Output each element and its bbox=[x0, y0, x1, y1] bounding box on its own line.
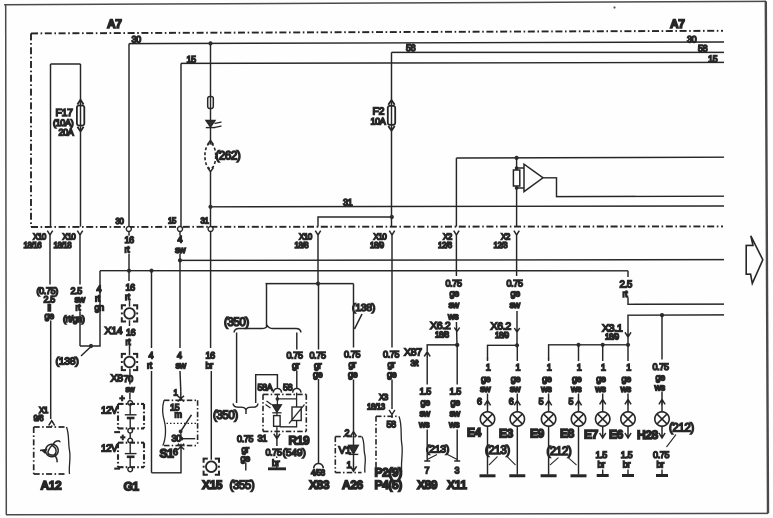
svg-text:18/13: 18/13 bbox=[367, 403, 385, 412]
pin arrow 1 of A26 bbox=[350, 462, 356, 471]
battery G1 lower cell box bbox=[118, 443, 144, 468]
wire bus2 bbox=[100, 270, 628, 272]
pin chevron X10 18/16 bbox=[47, 231, 52, 235]
svg-text:ge: ge bbox=[542, 374, 552, 384]
node S1 terminal 30 bbox=[180, 437, 184, 441]
svg-text:1: 1 bbox=[601, 363, 606, 373]
svg-text:4: 4 bbox=[149, 350, 154, 360]
pin arrow 2 of A26 bbox=[350, 432, 356, 438]
svg-text:ge: ge bbox=[387, 370, 397, 380]
wire brace left branch down bbox=[236, 333, 238, 404]
A26 wavy right edge bbox=[362, 437, 365, 473]
svg-text:gn: gn bbox=[95, 302, 105, 312]
pin terminal 15 circle on A7 border bbox=[178, 227, 183, 232]
wire bus 31 inside A7 bbox=[211, 205, 725, 208]
LED diode symbol bbox=[206, 121, 222, 128]
lamp E6 bbox=[621, 412, 635, 426]
svg-text:0.75: 0.75 bbox=[344, 349, 360, 359]
svg-text:1: 1 bbox=[347, 460, 352, 470]
svg-text:1: 1 bbox=[486, 363, 491, 373]
svg-text:ge: ge bbox=[450, 289, 460, 299]
svg-text:br: br bbox=[657, 460, 665, 470]
wire bus 30 inside A7 bbox=[129, 42, 724, 44]
svg-text:br: br bbox=[623, 460, 631, 470]
pin chevron X6.2 18/9 bbox=[514, 328, 519, 332]
pin arrow E6 below bbox=[625, 426, 631, 438]
svg-text:X87: X87 bbox=[404, 347, 422, 359]
svg-text:1: 1 bbox=[626, 363, 631, 373]
svg-text:0.75: 0.75 bbox=[266, 447, 282, 457]
svg-text:58A: 58A bbox=[258, 382, 273, 392]
svg-text:rt: rt bbox=[147, 361, 153, 371]
pin arrow E6 bbox=[625, 399, 631, 405]
wire lamp E7 column bbox=[602, 345, 604, 412]
connector X870 symbol bbox=[121, 354, 138, 370]
svg-text:+: + bbox=[120, 394, 125, 404]
resistor at amplifier input bbox=[513, 170, 519, 186]
fuse F2 bbox=[388, 100, 395, 131]
svg-text:(213): (213) bbox=[426, 444, 449, 456]
node busA at E3 bbox=[515, 343, 519, 347]
svg-text:G1: G1 bbox=[124, 480, 140, 494]
svg-text:E6: E6 bbox=[609, 428, 624, 442]
svg-text:ge: ge bbox=[421, 397, 431, 407]
svg-text:9/6: 9/6 bbox=[34, 414, 44, 423]
node junction F2 wire / X10 18-8 link bbox=[390, 215, 394, 219]
pin chevron X10 18/8 bbox=[315, 231, 320, 235]
svg-text:sw: sw bbox=[480, 384, 491, 394]
svg-text:rt: rt bbox=[76, 302, 82, 312]
device A12 box bbox=[34, 427, 66, 474]
svg-text:E7: E7 bbox=[584, 428, 599, 442]
wire lamp H28 column bbox=[661, 315, 663, 412]
svg-text:6: 6 bbox=[509, 397, 514, 407]
wire E4 to ground bbox=[487, 426, 489, 474]
wire amplifier input line bbox=[456, 156, 724, 159]
wire X6.2 down to X11 bbox=[456, 345, 458, 461]
svg-text:R19: R19 bbox=[289, 434, 311, 448]
wire bus2 corner 2.5 rt exit bbox=[628, 271, 724, 305]
S1 internal lead to 30 bbox=[181, 431, 196, 438]
wire X87 down to X89 bbox=[426, 356, 428, 461]
battery G1 upper cell plates bbox=[125, 404, 137, 428]
svg-text:1: 1 bbox=[547, 363, 552, 373]
wire X2 12/6 vertical bbox=[455, 158, 457, 227]
pin terminal 30 circle on A7 border bbox=[126, 227, 131, 232]
wire lamp E4 column bbox=[487, 358, 489, 413]
wire lamp feed line from right bbox=[628, 315, 724, 329]
svg-text:0.75: 0.75 bbox=[237, 434, 253, 444]
svg-text:1: 1 bbox=[577, 363, 582, 373]
wire link to X87 bbox=[427, 345, 457, 351]
svg-text:ge: ge bbox=[596, 374, 606, 384]
svg-text:1: 1 bbox=[174, 389, 178, 398]
fuse F17 circuit loop bbox=[50, 64, 52, 227]
wire 4rt bottom jog to S1 terminal 30 bbox=[152, 450, 182, 473]
svg-text:12/3: 12/3 bbox=[494, 241, 508, 250]
svg-text:16: 16 bbox=[126, 327, 136, 337]
svg-text:ws: ws bbox=[570, 384, 582, 394]
end tick X89 bbox=[424, 460, 430, 462]
pin chevron X2 12/3 bbox=[514, 231, 519, 235]
svg-text:4/58: 4/58 bbox=[311, 468, 325, 477]
node junction bus1 / 4sw bbox=[178, 258, 182, 262]
pin arrow 31 of R19 bbox=[274, 433, 280, 439]
wire X2 12/6 down to X6.2 18/8 bbox=[455, 234, 458, 345]
pin socket 58 of R19 bbox=[293, 388, 301, 392]
svg-text:4: 4 bbox=[177, 350, 182, 360]
svg-text:12/6: 12/6 bbox=[438, 241, 452, 250]
svg-text:0.75: 0.75 bbox=[383, 349, 399, 359]
wire bus1 from 4sw junction bbox=[180, 259, 724, 262]
svg-text:18/9: 18/9 bbox=[495, 331, 509, 340]
svg-text:(212): (212) bbox=[547, 446, 572, 458]
ground E4 bbox=[480, 474, 496, 477]
node junction bus2 / 16rt bbox=[127, 269, 131, 273]
svg-text:gr: gr bbox=[388, 359, 396, 369]
svg-text:ws: ws bbox=[620, 384, 632, 394]
pin arrow E4 bbox=[484, 400, 490, 406]
svg-text:−: − bbox=[115, 464, 120, 474]
svg-text:P4(5): P4(5) bbox=[375, 478, 403, 492]
K262 branch wire from bus 30 bbox=[210, 43, 212, 120]
node junction amp input bbox=[515, 156, 519, 160]
svg-text:sw: sw bbox=[176, 361, 187, 371]
resistor in R19 bbox=[274, 416, 281, 427]
svg-text:18/9: 18/9 bbox=[605, 332, 619, 341]
leader line (212) H28 bbox=[667, 435, 677, 448]
svg-text:ge: ge bbox=[572, 374, 582, 384]
svg-text:0.75: 0.75 bbox=[653, 362, 669, 372]
svg-text:ge: ge bbox=[511, 374, 521, 384]
svg-text:sw: sw bbox=[450, 408, 461, 418]
svg-text:gr: gr bbox=[292, 360, 300, 370]
pin arrow E7 bbox=[600, 399, 606, 405]
svg-text:E9: E9 bbox=[530, 427, 545, 441]
svg-text:ge: ge bbox=[313, 370, 323, 380]
wire amplifier output bbox=[543, 178, 724, 197]
svg-text:18/18: 18/18 bbox=[54, 241, 72, 250]
control unit A7 dash-dot border bbox=[31, 31, 723, 227]
svg-text:15: 15 bbox=[168, 217, 177, 226]
svg-text:58: 58 bbox=[406, 43, 416, 53]
LED in R19 bbox=[266, 401, 282, 413]
svg-text:18/16: 18/16 bbox=[24, 241, 42, 250]
svg-text:ws: ws bbox=[654, 383, 666, 393]
svg-text:18/8: 18/8 bbox=[295, 241, 309, 250]
ground E9 bbox=[541, 474, 557, 477]
svg-text:1.5: 1.5 bbox=[596, 450, 608, 460]
wire E8 to ground bbox=[578, 426, 580, 474]
battery G1 lower cell plates bbox=[125, 443, 137, 467]
wire lamp E9 column bbox=[548, 358, 550, 413]
svg-text:ws: ws bbox=[448, 419, 460, 429]
node junction on bus 30 at K262 branch bbox=[208, 41, 212, 45]
wire lamp E6 column bbox=[627, 345, 629, 412]
svg-text:6: 6 bbox=[477, 397, 482, 407]
svg-text:(350): (350) bbox=[224, 317, 249, 329]
rheostat arrow bbox=[289, 405, 305, 424]
svg-text:A7: A7 bbox=[670, 17, 685, 31]
lamp E3 bbox=[510, 412, 524, 426]
svg-text:ws: ws bbox=[418, 419, 430, 429]
pin terminal 31 circle on A7 border bbox=[208, 227, 213, 232]
switch S1 wavy left edge bbox=[163, 400, 166, 445]
pin chevron X6.2 18/8 bbox=[454, 328, 459, 332]
wire X10 18/8 down bbox=[317, 234, 319, 284]
svg-text:sw: sw bbox=[510, 384, 521, 394]
svg-text:0.75: 0.75 bbox=[310, 350, 326, 360]
svg-text:X11: X11 bbox=[447, 478, 467, 492]
svg-text:70: 70 bbox=[124, 374, 134, 384]
svg-text:15: 15 bbox=[708, 54, 718, 64]
wire bus 58 inside A7 bbox=[392, 51, 725, 53]
lamp feed bus E4 E3 bbox=[488, 345, 518, 359]
lamp E4 bbox=[480, 412, 494, 426]
wire joining 18/18 to 4 rt gn riser bbox=[80, 271, 100, 346]
svg-text:m: m bbox=[175, 410, 182, 420]
brace merge to 355 bbox=[233, 404, 258, 410]
svg-text:12V: 12V bbox=[101, 406, 118, 417]
svg-text:X3: X3 bbox=[379, 393, 388, 402]
leader lines (212) lamps bbox=[550, 458, 577, 466]
svg-text:58: 58 bbox=[698, 44, 708, 54]
svg-text:(10A): (10A) bbox=[53, 118, 74, 128]
S1 switch contact arm bbox=[180, 415, 191, 432]
pin arrow into A12 bbox=[49, 421, 55, 427]
node X6.2 split bbox=[455, 343, 459, 347]
svg-text:br: br bbox=[598, 460, 606, 470]
wire X10 18/18 down bbox=[79, 234, 81, 347]
wire vertical terminal 15 to pin X10 bbox=[180, 63, 182, 226]
wire X10 18/16 down to A12 bbox=[49, 234, 52, 420]
node busB at E6 bbox=[626, 343, 630, 347]
svg-text:(355): (355) bbox=[230, 480, 255, 492]
svg-text:ge: ge bbox=[45, 311, 55, 321]
wire drop to brace 350 bbox=[266, 284, 268, 327]
arrow out of K262 oval bbox=[208, 168, 214, 172]
svg-text:0.75: 0.75 bbox=[653, 450, 669, 460]
node junction 18/8 on bar bbox=[316, 282, 320, 286]
pin terminal 6 of S1 bbox=[178, 444, 184, 450]
svg-text:20A: 20A bbox=[59, 128, 74, 138]
pin chevron X3 18/13 bbox=[389, 410, 395, 415]
svg-text:16: 16 bbox=[206, 350, 216, 360]
R19 internal wiring bbox=[277, 393, 297, 433]
pin arrow E8 bbox=[575, 400, 581, 406]
wire X10 18/9 down to P2 bbox=[391, 234, 393, 410]
svg-text:E8: E8 bbox=[560, 427, 575, 441]
wire X83 column from bar bbox=[318, 284, 320, 464]
wire link X10 18/8 to fuse F2 output bbox=[318, 217, 392, 227]
svg-text:30: 30 bbox=[687, 35, 697, 45]
connector X15 symbol bbox=[203, 459, 220, 475]
wire 16rt pin30 to X14 bbox=[128, 232, 131, 307]
page continuation arrow bbox=[746, 236, 763, 284]
wire K262 to bus 31 bbox=[210, 172, 212, 227]
wire pin into P2 bbox=[391, 415, 393, 419]
svg-text:7: 7 bbox=[425, 466, 430, 476]
node junction on joining wire bbox=[89, 344, 93, 348]
svg-text:br: br bbox=[272, 458, 280, 468]
svg-text:1: 1 bbox=[516, 363, 521, 373]
svg-text:(138): (138) bbox=[352, 302, 375, 314]
wire 4sw down to S1 bbox=[179, 232, 182, 392]
svg-text:ge: ge bbox=[348, 370, 358, 380]
svg-text:rt: rt bbox=[623, 289, 629, 299]
svg-text:0.75: 0.75 bbox=[507, 278, 523, 288]
ground E8 bbox=[571, 474, 587, 477]
fuse F17 bbox=[77, 100, 84, 132]
resistor in K262 branch bbox=[208, 97, 214, 109]
svg-text:sw: sw bbox=[420, 408, 431, 418]
leader line for (138) bbox=[81, 348, 90, 357]
pin arrow E7 below bbox=[600, 426, 606, 438]
svg-text:ge: ge bbox=[481, 374, 491, 384]
svg-text:1.5: 1.5 bbox=[621, 450, 633, 460]
ground E3 bbox=[509, 474, 525, 477]
node busB at E7 bbox=[601, 343, 605, 347]
node R19 58A bbox=[276, 397, 280, 401]
lamp H28 bbox=[655, 412, 669, 426]
svg-text:0.75: 0.75 bbox=[446, 278, 462, 288]
device A12 wavy right edge bbox=[67, 427, 70, 474]
component K262 dashed oval bbox=[205, 143, 216, 168]
P2 wavy right edge bbox=[399, 416, 402, 472]
node amp input top bbox=[515, 166, 519, 170]
node amp input bottom bbox=[515, 186, 519, 190]
node S1 contact bbox=[179, 430, 183, 434]
svg-text:gr: gr bbox=[349, 359, 357, 369]
wire amp/X2 12/3 vertical bbox=[516, 158, 518, 227]
wire A26 feed from bar bbox=[353, 284, 355, 432]
end tick X11 bbox=[454, 460, 460, 462]
svg-text:X15: X15 bbox=[202, 478, 223, 492]
switch S1 box bbox=[164, 400, 198, 445]
svg-text:ws: ws bbox=[594, 384, 606, 394]
svg-text:16: 16 bbox=[125, 235, 135, 245]
svg-text:31: 31 bbox=[343, 197, 353, 207]
svg-text:(212): (212) bbox=[669, 423, 694, 435]
wire X2 12/3 down to X6.2 18/9 bbox=[516, 234, 518, 346]
node junction K262/bus31 bbox=[208, 205, 212, 209]
battery G1 upper cell box bbox=[118, 404, 144, 429]
svg-text:sw: sw bbox=[510, 300, 521, 310]
pin terminal 1 of S1 bbox=[178, 391, 184, 401]
node busB at E8 bbox=[576, 343, 580, 347]
svg-text:A12: A12 bbox=[41, 479, 63, 493]
svg-text:16: 16 bbox=[126, 282, 136, 292]
svg-text:X83: X83 bbox=[309, 478, 330, 492]
wire bus 15 inside A7 bbox=[181, 62, 724, 63]
svg-text:sw: sw bbox=[175, 245, 186, 255]
pin arrow H28 below bbox=[659, 426, 665, 438]
lamp E7 bbox=[596, 412, 610, 426]
svg-text:S1: S1 bbox=[160, 447, 175, 461]
ground H28 bbox=[656, 474, 668, 477]
svg-text:X8: X8 bbox=[111, 373, 124, 385]
svg-text:(138): (138) bbox=[56, 356, 79, 368]
ground E6 bbox=[622, 474, 634, 477]
lamp E9 bbox=[541, 412, 555, 426]
svg-text:31: 31 bbox=[258, 434, 268, 444]
svg-text:58: 58 bbox=[387, 420, 397, 430]
leader lines (213) pair1 bbox=[427, 455, 457, 460]
pin chevron X2 12/6 bbox=[454, 231, 459, 235]
svg-text:H28: H28 bbox=[637, 428, 659, 442]
wire distribution bar y283 bbox=[266, 283, 354, 285]
wire X3.1 to lamp bus bbox=[627, 337, 629, 345]
S1 internal dotted line bbox=[167, 422, 197, 424]
svg-text:4: 4 bbox=[97, 284, 102, 294]
ground R19 bbox=[268, 467, 286, 470]
svg-text:0.75: 0.75 bbox=[287, 350, 303, 360]
svg-text:E3: E3 bbox=[499, 427, 514, 441]
pin arrow X87 bbox=[424, 352, 430, 358]
svg-text:(549): (549) bbox=[283, 447, 306, 459]
pin socket 58A of R19 bbox=[273, 388, 281, 392]
wire lamp E3 column bbox=[516, 345, 518, 412]
node junction bus2 / 4rt bbox=[149, 269, 153, 273]
wire X870 to battery bbox=[129, 369, 131, 400]
svg-text:(rt/gn): (rt/gn) bbox=[63, 314, 85, 324]
ground E7 bbox=[597, 474, 609, 477]
svg-text:18/9: 18/9 bbox=[370, 241, 384, 250]
pin arrow X3.1 bbox=[625, 329, 631, 337]
svg-text:18/8: 18/8 bbox=[435, 330, 449, 339]
leader lines (213) lamps bbox=[489, 457, 516, 466]
svg-text:−: − bbox=[115, 427, 120, 437]
svg-text:ws: ws bbox=[540, 384, 552, 394]
diode V1 bbox=[349, 436, 359, 462]
wire X14 to X870 bbox=[129, 320, 131, 355]
amplifier U1 triangle bbox=[517, 164, 543, 191]
wire 4rt from bus2 down bbox=[151, 271, 153, 473]
svg-text:(262): (262) bbox=[216, 151, 241, 163]
svg-text:3/t: 3/t bbox=[411, 359, 420, 368]
pin chevron X10 18/9 bbox=[389, 231, 394, 235]
svg-text:4: 4 bbox=[178, 235, 183, 245]
leader line (138) to wire bbox=[355, 314, 363, 329]
svg-text:15: 15 bbox=[187, 55, 197, 65]
svg-text:12V: 12V bbox=[101, 443, 118, 454]
wire E3 to ground bbox=[516, 426, 518, 474]
wire 16br from pin31 down to X15 bbox=[210, 232, 213, 460]
svg-text:rt: rt bbox=[125, 292, 131, 302]
lamp feed bus E9 E8 E7 E6 bbox=[549, 345, 628, 360]
svg-text:X14: X14 bbox=[105, 325, 123, 337]
svg-text:5: 5 bbox=[569, 397, 574, 407]
node H28 tap bbox=[660, 313, 664, 317]
svg-text:6: 6 bbox=[173, 447, 178, 457]
instrument P2 box bbox=[376, 416, 399, 472]
wire R19 pin31 to ground bbox=[276, 439, 278, 468]
svg-text:br: br bbox=[206, 361, 214, 371]
svg-text:ge: ge bbox=[656, 373, 666, 383]
rheostat in R19 bbox=[292, 407, 301, 421]
wire H28 ground stub bbox=[661, 470, 663, 475]
svg-text:rt: rt bbox=[126, 337, 132, 347]
svg-text:A7: A7 bbox=[107, 17, 122, 31]
brace split 350 bbox=[234, 326, 301, 333]
relay R19 pin 58A loop bbox=[256, 375, 278, 403]
svg-text:rt: rt bbox=[125, 245, 131, 255]
connector X14 symbol bbox=[121, 305, 138, 321]
svg-text:sw: sw bbox=[126, 385, 136, 394]
speck artifact bbox=[613, 6, 615, 8]
svg-text:3: 3 bbox=[455, 466, 460, 476]
svg-text:31: 31 bbox=[201, 217, 209, 226]
